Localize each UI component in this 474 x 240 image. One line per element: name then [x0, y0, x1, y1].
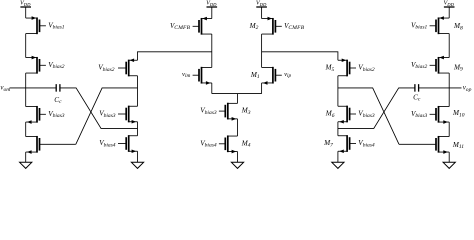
wire: right Cc to cascode node of class-AB branch (diagonal) — [338, 88, 415, 128]
power VDD (first stage right) — [256, 0, 267, 19]
wire: right load drain to input device drain (first-stage output) — [261, 34, 263, 67]
wire: first-stage output (right) to class-AB branch — [262, 52, 338, 60]
wire: left output branch, V_bias2 drain to node v_om — [25, 73, 27, 107]
wire: left class-AB pmos drain to nmos cascode drain — [137, 76, 139, 107]
power VDD (left output branch) — [20, 0, 31, 18]
wire: first-stage output (left) to class-AB branch — [138, 52, 212, 60]
wire: left class-AB drain node to output nmos gate (diagonal) — [76, 88, 138, 144]
ground (tail current source) — [231, 152, 243, 169]
svg-text:VDD: VDD — [443, 0, 454, 7]
wire: right class-AB cascode source to bottom nmos drain — [337, 122, 339, 136]
transistor M1 nmos input v_ip (first stage right) — [250, 67, 292, 85]
ground (left output branch) — [20, 152, 32, 168]
wire: right class-AB pmos drain to nmos cascode drain — [337, 76, 339, 107]
wire: tail node down to cascode M3 — [237, 94, 239, 104]
transistor M5 pmos level-shift V_bias2 (right class-AB branch) — [325, 58, 375, 76]
pmos level-shift V_bias2 (left class-AB branch) — [98, 58, 137, 76]
wire: tail node joining both input sources — [212, 93, 262, 95]
wire: node v_om to compensation cap — [10, 87, 57, 89]
pmos cascode V_bias1 (left output branch) — [26, 16, 65, 34]
ground (right output branch) — [443, 152, 455, 168]
svg-text:VDD: VDD — [256, 0, 267, 7]
svg-text:VDD: VDD — [206, 0, 217, 7]
pmos load V_CMFB (first stage left) — [170, 17, 212, 35]
ground (left class-AB branch) — [131, 151, 143, 168]
transistor M7 nmos V_bias4 (right class-AB branch) — [323, 135, 375, 153]
power VDD (right output branch) — [443, 0, 454, 18]
wire: M3 source to M4 drain — [237, 119, 239, 136]
ground (right class-AB branch) — [332, 151, 344, 168]
transistor M11 nmos output device (right, gate driven by class-AB node) — [399, 136, 464, 154]
wire: left class-AB cascode source to bottom nmos drain — [137, 122, 139, 136]
nmos V_bias4 (left class-AB branch) — [99, 135, 137, 153]
transistor M8 pmos cascode V_bias1 (right output branch) — [411, 16, 463, 34]
nmos cascode V_bias3 (left class-AB branch) — [99, 106, 137, 124]
wire: right output branch, M8 drain to M9 source — [448, 34, 450, 58]
transistor M9 pmos cascode V_bias2 (right output branch) — [411, 56, 463, 74]
wire: compensation cap to node v_op — [419, 87, 462, 89]
wire: right input source to tail node — [261, 83, 263, 94]
wire: right output branch, M9 drain to node v_op — [448, 73, 450, 107]
wire: right class-AB drain node to output nmos gate (diagonal) — [338, 88, 399, 144]
power VDD (first stage left) — [206, 0, 217, 19]
wire: left load drain to input device drain (first-stage output) — [211, 34, 213, 67]
transistor M2 pmos load V_CMFB (first stage right) — [249, 17, 305, 35]
nmos output device (left, gate driven by class-AB node) — [26, 136, 76, 154]
nmos cascode V_bias3 (left output branch) — [26, 106, 65, 124]
wire: left output branch, cascode source to output nmos drain — [25, 122, 27, 137]
nmos input v_im (first stage left) — [182, 67, 212, 85]
capacitor Cc (left compensation) — [54, 84, 62, 105]
transistor M10 nmos cascode V_bias3 (right output branch) — [411, 106, 465, 124]
pmos cascode V_bias2 (left output branch) — [26, 56, 65, 74]
transistor M6 nmos cascode V_bias3 (right class-AB branch) — [325, 106, 375, 124]
wire: left output branch, V_bias1 drain to V_bias2 source — [25, 34, 27, 58]
wire: right output branch, M10 source to M11 drain — [448, 122, 450, 137]
transistor M4 nmos tail source V_bias4 — [200, 135, 250, 153]
wire: left Cc to cascode node of class-AB branch (diagonal) — [60, 88, 138, 128]
capacitor Cc (right compensation) — [413, 84, 421, 103]
svg-text:VDD: VDD — [20, 0, 31, 7]
transistor M3 nmos tail cascode V_bias3 — [200, 103, 250, 121]
wire: left input source to tail node — [211, 83, 213, 94]
